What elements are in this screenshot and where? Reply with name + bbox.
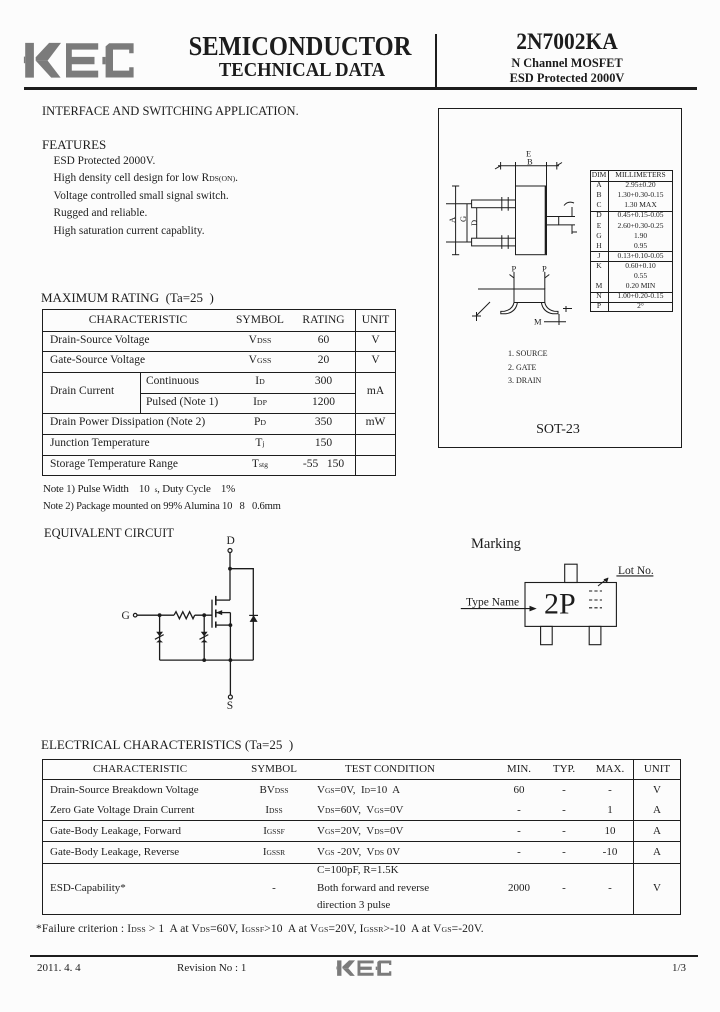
row 6 bbox=[50, 458, 178, 470]
part number 2N7002KA bbox=[447, 28, 687, 56]
side view seating line bbox=[478, 288, 545, 290]
left gull lead bbox=[501, 303, 518, 314]
marking drawing bbox=[440, 530, 690, 655]
elec row5 ESD bbox=[50, 882, 126, 894]
footnote bbox=[36, 923, 484, 935]
body diode D1 triangle bbox=[250, 615, 258, 622]
svg-text:D: D bbox=[227, 535, 235, 547]
lot leader arrow bbox=[598, 578, 608, 586]
wire: body connection bbox=[216, 612, 231, 614]
svg-text:Lot No.: Lot No. bbox=[618, 565, 654, 577]
svg-text:M: M bbox=[534, 317, 542, 327]
max rating table frame bbox=[42, 309, 396, 476]
D dim line bbox=[476, 208, 478, 239]
lead 2 (bottom-left) bbox=[472, 238, 516, 246]
table v-lines bbox=[355, 309, 356, 476]
node drain-diode junction bbox=[228, 567, 232, 571]
svg-text:A: A bbox=[447, 216, 457, 223]
svg-text:Type Name: Type Name bbox=[466, 597, 519, 609]
wire: resistor to gate bbox=[195, 614, 212, 616]
zener Z1 cathode bar bbox=[155, 635, 164, 640]
left side-view marks bbox=[476, 312, 478, 321]
body diode D1 cathode bar bbox=[249, 614, 258, 616]
notes bbox=[43, 483, 235, 495]
SOT-23 label bbox=[496, 422, 620, 438]
node rail-source junction bbox=[229, 658, 233, 662]
svg-text:P: P bbox=[512, 264, 517, 274]
resistor R1 bbox=[174, 612, 195, 619]
lead 3 (right) bbox=[547, 217, 559, 225]
elec row2 bbox=[50, 804, 194, 816]
package body (top view) bbox=[516, 186, 547, 255]
header divider bbox=[435, 34, 437, 87]
transistor Q1 gate bar bbox=[211, 600, 213, 628]
DIM table bbox=[590, 170, 673, 312]
bottom lead left bbox=[541, 626, 553, 644]
node rail-zener2 junction bbox=[202, 658, 206, 662]
header thick rule bbox=[24, 87, 697, 90]
elec row1 bbox=[50, 784, 199, 796]
svg-text:S: S bbox=[227, 700, 233, 712]
node source junction bbox=[229, 623, 233, 627]
svg-text:B: B bbox=[527, 157, 533, 167]
D ticks on leads bbox=[501, 197, 503, 211]
lot no underline bbox=[616, 575, 653, 577]
features list bbox=[54, 153, 238, 240]
title SEMICONDUCTOR bbox=[160, 31, 440, 62]
wire: source down to terminal bbox=[229, 613, 231, 695]
wire: branch to body diode bbox=[230, 569, 253, 660]
extension lines from lead tips bbox=[446, 203, 472, 205]
wire: gate lead bbox=[137, 614, 174, 616]
lead 1 (top-left) bbox=[472, 200, 516, 208]
wire: zener Z1 branch bbox=[159, 615, 161, 660]
terminal D (drain) bbox=[228, 549, 232, 553]
row 2 bbox=[50, 354, 145, 366]
lot marks bbox=[589, 590, 602, 592]
elec row3 bbox=[50, 825, 181, 837]
svg-text:G: G bbox=[122, 610, 130, 622]
package drawing SOT-23 bbox=[438, 108, 682, 448]
body arrow of Q1 bbox=[216, 610, 222, 615]
elec table frame bbox=[42, 759, 681, 915]
P dim lines bbox=[513, 272, 515, 289]
elec row4 bbox=[50, 846, 179, 858]
node gate-zener1 junction bbox=[158, 613, 162, 617]
G dim line bbox=[466, 204, 468, 242]
M dim bbox=[544, 321, 566, 323]
application line bbox=[42, 104, 299, 119]
type name arrow line bbox=[461, 608, 534, 610]
footer KEC logo bbox=[336, 960, 392, 976]
package body outline bbox=[525, 583, 616, 627]
features heading bbox=[42, 137, 106, 153]
top lead bbox=[565, 564, 577, 582]
svg-text:D: D bbox=[469, 220, 479, 226]
extension lines from dim to body bbox=[515, 166, 517, 186]
elec header bbox=[42, 763, 238, 775]
zener diode Z1 triangles bbox=[156, 632, 163, 637]
terminal G (gate) bbox=[133, 613, 137, 617]
right lead extension lines bbox=[546, 213, 548, 217]
transistor Q1 channel segments bbox=[215, 596, 217, 605]
wire: drain terminal down bbox=[229, 553, 231, 601]
node gate-zener2 junction bbox=[202, 613, 206, 617]
svg-text:2P: 2P bbox=[544, 588, 576, 621]
row 1 bbox=[50, 334, 150, 346]
pin list bbox=[508, 347, 548, 388]
table text : header bbox=[42, 314, 234, 326]
A dim line bbox=[455, 186, 457, 255]
title TECHNICAL DATA bbox=[160, 58, 444, 82]
row 5 bbox=[50, 437, 150, 449]
KEC logo bbox=[20, 40, 140, 82]
svg-text:P: P bbox=[542, 264, 547, 274]
wire: bottom rail bbox=[160, 659, 254, 661]
top dim line E/B bbox=[498, 165, 559, 167]
wire: source connection bbox=[216, 624, 231, 626]
side body bbox=[514, 289, 545, 303]
right gull lead bbox=[541, 303, 558, 314]
terminal S (source) bbox=[228, 695, 232, 699]
row 4 bbox=[50, 416, 205, 428]
zener diode Z2 triangles bbox=[201, 632, 208, 637]
equivalent circuit drawing bbox=[95, 535, 285, 720]
wire: zener Z2 branch bbox=[203, 615, 205, 660]
svg-text:G: G bbox=[458, 216, 468, 222]
bottom lead right bbox=[589, 626, 601, 644]
row 3 drain current bbox=[50, 385, 114, 397]
table h-lines bbox=[42, 331, 396, 332]
wire: drain to channel bbox=[216, 599, 230, 601]
zener Z2 cathode bar bbox=[200, 635, 209, 640]
